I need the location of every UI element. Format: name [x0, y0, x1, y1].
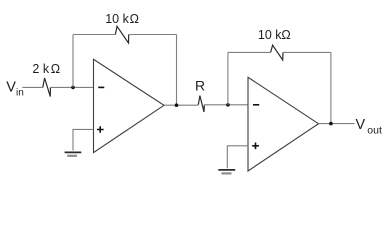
wire: feedback 2 top left segment — [228, 51, 271, 53]
wire: feedback 2 right vertical — [330, 52, 332, 123]
svg-text:Ω: Ω — [51, 62, 60, 76]
ground 2 narrow bar — [222, 172, 232, 174]
op-amp U1 triangle — [94, 59, 165, 152]
wire: feedback 1 top left segment — [73, 34, 115, 36]
resistor R (squiggle symbol) — [198, 96, 204, 112]
svg-text:R: R — [195, 78, 205, 94]
svg-text:Ω: Ω — [281, 28, 290, 42]
wire: R to U2 inverting input — [204, 104, 248, 106]
svg-text:out: out — [367, 125, 382, 137]
ground 2 wide bar — [218, 169, 235, 171]
wire: U1 plus input to ground — [73, 129, 94, 150]
U1 inverting input minus sign — [98, 86, 104, 88]
svg-text:V: V — [356, 117, 366, 133]
wire: Vin lead to R1 — [22, 86, 43, 88]
ground 1 narrow bar — [67, 155, 77, 157]
svg-text:in: in — [16, 88, 24, 99]
wire: U1 output — [164, 104, 198, 106]
ground 1 wide bar — [65, 151, 82, 153]
svg-text:10 k: 10 k — [258, 28, 282, 42]
wire: U2 plus input to ground — [227, 146, 248, 169]
svg-text:2 k: 2 k — [32, 62, 49, 76]
svg-text:10 k: 10 k — [105, 12, 129, 26]
node: U2 inverting input junction — [226, 103, 230, 107]
U2 inverting input minus sign — [253, 104, 259, 106]
resistor Rf2 10 kOhm (squiggle symbol) — [271, 45, 283, 60]
wire: feedback 2 left vertical — [227, 52, 229, 104]
wire: feedback 1 top right segment — [129, 34, 177, 36]
node: U2 output junction — [329, 122, 333, 126]
wire: feedback 1 right vertical — [176, 35, 178, 106]
op-amp U2 triangle — [248, 77, 319, 171]
wire: U2 output to Vout — [319, 123, 355, 125]
U1 non-inverting input plus sign — [97, 126, 104, 133]
resistor R1 2 kOhm (squiggle symbol) — [43, 78, 51, 97]
node: U1 inverting input junction — [71, 86, 75, 90]
resistor Rf1 10 kOhm (squiggle symbol) — [115, 26, 128, 43]
wire: feedback 2 top right segment — [283, 51, 331, 53]
U2 non-inverting input plus sign — [252, 143, 259, 150]
svg-text:Ω: Ω — [130, 12, 139, 26]
svg-text:V: V — [6, 79, 16, 95]
wire: feedback 1 left vertical — [72, 35, 74, 88]
wire: R1 to U1 inverting input — [50, 86, 93, 88]
node: U1 output junction — [175, 103, 179, 107]
